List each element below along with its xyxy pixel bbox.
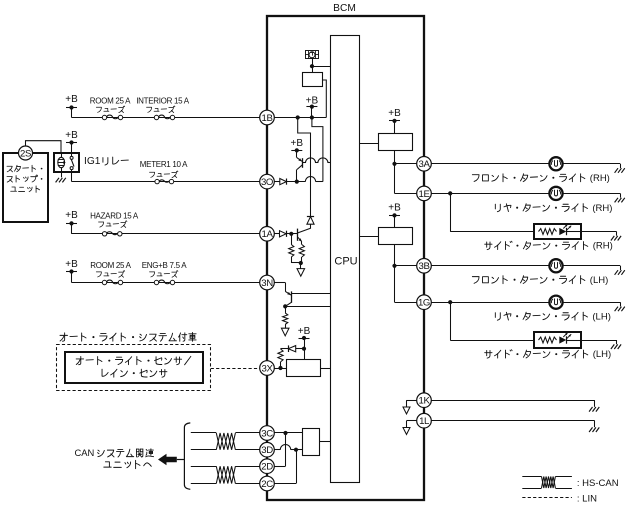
svg-text:(RH): (RH) [593, 241, 613, 252]
svg-text:(RH): (RH) [590, 173, 610, 184]
svg-text:+B: +B [65, 130, 78, 141]
svg-text:1L: 1L [419, 416, 430, 427]
svg-text:(LH): (LH) [590, 275, 608, 286]
svg-text:: HS-CAN: : HS-CAN [577, 478, 619, 489]
svg-text:2C: 2C [261, 479, 273, 490]
svg-text:1B: 1B [262, 113, 273, 124]
svg-text:+B: +B [291, 138, 304, 149]
svg-text:3C: 3C [261, 428, 273, 439]
svg-text:IG1: IG1 [84, 156, 101, 167]
svg-text:3O: 3O [261, 177, 273, 188]
svg-text:(LH): (LH) [592, 311, 610, 322]
svg-text:+B: +B [298, 326, 311, 337]
svg-text:+B: +B [65, 259, 78, 270]
svg-text:3N: 3N [261, 278, 273, 289]
svg-text:CAN: CAN [75, 447, 95, 458]
svg-text:1K: 1K [419, 396, 431, 407]
svg-text:METER1 10 A: METER1 10 A [140, 160, 188, 169]
svg-text:ROOM 25 A: ROOM 25 A [90, 96, 131, 105]
svg-text:INTERIOR 15 A: INTERIOR 15 A [136, 96, 190, 105]
svg-text:HAZARD 15 A: HAZARD 15 A [90, 211, 139, 220]
svg-text:2S: 2S [20, 148, 31, 159]
svg-text:ROOM 25 A: ROOM 25 A [90, 261, 131, 270]
svg-text:1G: 1G [418, 298, 430, 309]
svg-text:+B: +B [388, 108, 401, 119]
svg-text:+B: +B [65, 210, 78, 221]
svg-text:(LH): (LH) [593, 349, 611, 360]
svg-text:ENG+B 7.5 A: ENG+B 7.5 A [142, 261, 187, 270]
svg-text:3X: 3X [262, 363, 274, 374]
svg-text:+B: +B [388, 203, 401, 214]
svg-text:BCM: BCM [333, 3, 356, 14]
svg-text:(RH): (RH) [592, 203, 612, 214]
svg-text:+B: +B [65, 94, 78, 105]
svg-text:CPU: CPU [334, 255, 357, 267]
svg-text:2D: 2D [261, 462, 273, 473]
svg-text:1E: 1E [419, 189, 430, 200]
svg-text:3B: 3B [419, 261, 430, 272]
svg-text:: LIN: : LIN [577, 494, 597, 505]
svg-text:1A: 1A [262, 229, 274, 240]
svg-text:3D: 3D [261, 445, 273, 456]
svg-text:3A: 3A [419, 159, 431, 170]
